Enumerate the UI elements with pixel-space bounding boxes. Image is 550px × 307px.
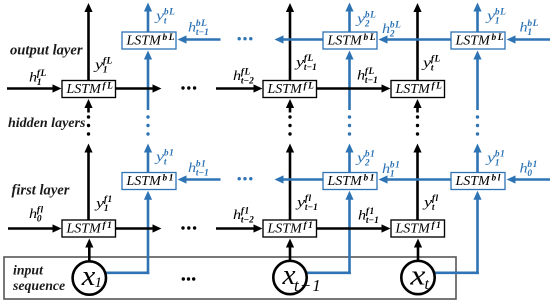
- dots black between f1 col1 col2: [181, 226, 184, 229]
- svg-text:LSTM: LSTM: [267, 222, 304, 237]
- wire h1bL from right edge into bL box3: [515, 38, 550, 41]
- dots vertical black col1: [87, 115, 90, 118]
- svg-text:LSTM: LSTM: [66, 222, 103, 237]
- dots black between fL col1 col2: [181, 86, 184, 89]
- dots vertical blue col3: [476, 115, 479, 118]
- svg-text:LSTM: LSTM: [267, 82, 304, 97]
- wire b1 box2 output left: [283, 178, 324, 181]
- svg-text:t−1: t−1: [365, 76, 378, 86]
- svg-text:hidden layers: hidden layers: [8, 116, 86, 131]
- svg-text:0: 0: [37, 214, 42, 224]
- dots input between x1 xt-1: [182, 277, 185, 280]
- wire blue col1 top output arrow: [147, 11, 150, 33]
- LSTM f1 box col2: [263, 220, 317, 237]
- LSTM bL box col2: [323, 32, 377, 49]
- svg-text:1: 1: [37, 78, 42, 88]
- LSTM bL box col3: [451, 32, 505, 49]
- wire blue col1 into bL box from below: [147, 59, 150, 111]
- wire ht-1b1 into b1 box1: [186, 178, 221, 181]
- svg-text:b1: b1: [163, 174, 175, 184]
- wire blue col3 b1 output up: [476, 152, 479, 173]
- svg-text:fL: fL: [103, 82, 115, 92]
- wire blue col2 into bL box from below: [348, 59, 351, 111]
- LSTM b1 box col3: [451, 173, 505, 190]
- svg-text:h: h: [233, 208, 241, 223]
- svg-text:t−2: t−2: [241, 76, 254, 86]
- svg-text:1: 1: [103, 65, 108, 75]
- wire ht-1f1 f1 box2 to box3: [317, 227, 383, 230]
- svg-text:sequence: sequence: [12, 278, 65, 293]
- svg-text:h: h: [382, 22, 390, 37]
- LSTM f1 box col1: [62, 220, 116, 237]
- svg-text:t: t: [431, 63, 434, 73]
- dots blue between b1 col1 col2: [238, 177, 241, 180]
- svg-text:t: t: [164, 16, 167, 26]
- svg-text:1: 1: [104, 204, 109, 214]
- wire black col2 top output arrow: [289, 11, 292, 81]
- LSTM f1 box col3: [391, 220, 445, 237]
- svg-text:input: input: [13, 263, 44, 278]
- wire blue col3 from input circle xt: [433, 271, 479, 274]
- wire h0b1 from right edge into b1 box3: [515, 178, 550, 181]
- wire f1 box1 output right: [116, 227, 154, 230]
- svg-text:t: t: [432, 203, 435, 213]
- svg-text:h: h: [520, 21, 528, 36]
- wire ht-1bL into bL box1: [186, 38, 221, 41]
- wire black col1 top output arrow: [87, 11, 90, 81]
- wire black col1 f1 output up: [87, 152, 90, 221]
- wire blue col1 b1 output up: [147, 152, 150, 173]
- svg-text:h: h: [29, 207, 37, 222]
- wire black col3 top output arrow: [416, 11, 419, 81]
- svg-text:h: h: [358, 209, 366, 224]
- LSTM fL box col3: [391, 81, 445, 98]
- node x1 circle: [73, 261, 106, 294]
- svg-text:t: t: [164, 157, 167, 167]
- wire black col2 from input circle: [289, 247, 292, 261]
- wire blue col2 b1 output up: [348, 152, 351, 173]
- svg-text:LSTM: LSTM: [126, 34, 163, 49]
- svg-text:h: h: [382, 162, 390, 177]
- svg-text:t−2: t−2: [241, 215, 254, 225]
- svg-text:h: h: [29, 71, 37, 86]
- svg-text:0: 0: [527, 169, 532, 179]
- svg-text:output layer: output layer: [10, 43, 83, 59]
- dots vertical blue col1: [146, 115, 149, 118]
- svg-text:h: h: [357, 69, 365, 84]
- svg-text:1: 1: [527, 28, 532, 38]
- wire black col2 f1 output up: [289, 152, 292, 221]
- svg-text:bL: bL: [492, 33, 505, 43]
- wire fL box1 output right: [116, 87, 154, 90]
- svg-text:1: 1: [495, 16, 500, 26]
- wire black col1 into fL box from below: [87, 107, 90, 113]
- svg-text:f1: f1: [432, 221, 443, 231]
- svg-text:LSTM: LSTM: [126, 174, 163, 189]
- wire h0fl into f1 box1: [8, 227, 54, 230]
- svg-text:t−1: t−1: [196, 28, 209, 38]
- LSTM fL box col2: [263, 81, 317, 98]
- wire blue col2 top output arrow: [348, 11, 351, 33]
- svg-text:t−1: t−1: [305, 203, 318, 213]
- svg-text:LSTM: LSTM: [395, 222, 432, 237]
- wire h1b1 b1 box3 to box2: [387, 178, 452, 181]
- svg-text:bL: bL: [163, 33, 176, 43]
- svg-text:2: 2: [364, 158, 370, 168]
- dots blue between bL col1 col2: [238, 37, 241, 40]
- wire h1fL into fL box1: [7, 87, 54, 90]
- svg-text:h: h: [520, 162, 528, 177]
- wire black col3 into fL box from below: [416, 107, 419, 113]
- node xt circle: [401, 261, 434, 294]
- LSTM bL box col1: [122, 32, 176, 49]
- wire blue col1 from input circle x1: [105, 271, 150, 274]
- input sequence frame: [4, 257, 456, 299]
- svg-text:1: 1: [390, 169, 395, 179]
- LSTM b1 box col1: [122, 173, 176, 190]
- svg-text:1: 1: [95, 275, 103, 291]
- svg-text:h: h: [188, 21, 196, 36]
- dots vertical black col3: [416, 115, 419, 118]
- svg-text:h: h: [233, 69, 241, 84]
- svg-text:first layer: first layer: [12, 183, 70, 199]
- LSTM fL box col1: [62, 81, 116, 98]
- svg-text:2: 2: [389, 29, 395, 39]
- svg-text:h: h: [188, 161, 196, 176]
- svg-text:LSTM: LSTM: [455, 34, 492, 49]
- svg-text:fL: fL: [432, 82, 444, 92]
- svg-text:t−1: t−1: [366, 216, 379, 226]
- svg-text:t−1: t−1: [304, 63, 317, 73]
- wire h2bL bL box3 to box2: [387, 38, 452, 41]
- svg-text:t: t: [425, 276, 430, 293]
- svg-text:f1: f1: [103, 221, 114, 231]
- wire black col3 from input circle: [417, 247, 420, 261]
- svg-text:bl: bl: [492, 174, 502, 184]
- LSTM b1 box col2: [323, 173, 377, 190]
- svg-text:t−1: t−1: [196, 168, 209, 178]
- wire black col3 f1 output up: [416, 152, 419, 221]
- dots vertical black col2: [288, 115, 291, 118]
- svg-text:LSTM: LSTM: [327, 174, 364, 189]
- wire ht-2f1 into f1 box2: [216, 227, 255, 230]
- svg-text:1: 1: [495, 158, 500, 168]
- wire blue col3 top output arrow: [476, 11, 479, 33]
- svg-text:2: 2: [364, 19, 370, 29]
- wire black col1 from input circle: [88, 247, 91, 261]
- svg-text:LSTM: LSTM: [455, 174, 492, 189]
- svg-text:LSTM: LSTM: [327, 34, 364, 49]
- svg-text:bL: bL: [364, 33, 377, 43]
- wire blue col3 into bL box from below: [476, 59, 479, 111]
- svg-text:LSTM: LSTM: [395, 82, 432, 97]
- wire blue col2 from input circle xt-1: [305, 271, 351, 274]
- node xt-1 circle: [273, 261, 306, 294]
- svg-text:f1: f1: [304, 221, 315, 231]
- svg-text:b1: b1: [364, 174, 376, 184]
- svg-text:t−1: t−1: [294, 276, 322, 295]
- svg-text:fL: fL: [304, 82, 316, 92]
- wire ht-1fL fL box2 to box3: [317, 87, 383, 90]
- wire ht-2fL into fL box2: [216, 87, 255, 90]
- svg-text:LSTM: LSTM: [66, 82, 103, 97]
- dots vertical blue col2: [348, 115, 351, 118]
- wire black col2 into fL box from below: [289, 107, 292, 113]
- wire bL box2 output left: [283, 38, 324, 41]
